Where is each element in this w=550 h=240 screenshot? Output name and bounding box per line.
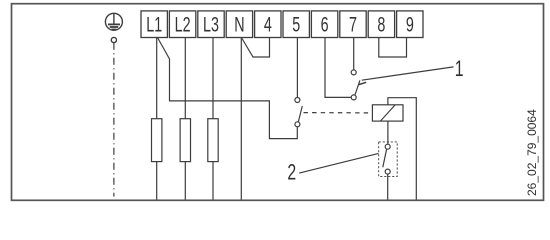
svg-text:8: 8 (377, 13, 385, 36)
terminal block (141, 11, 423, 38)
terminal 7 (340, 11, 366, 38)
wire L3 (212, 38, 214, 119)
jumper 8-9 (379, 38, 407, 58)
fuse F2 (180, 119, 190, 162)
frame border (12, 4, 544, 201)
svg-text:7: 7 (349, 13, 357, 36)
terminal 4 (255, 11, 281, 38)
earth symbol PE (105, 13, 122, 30)
wire terminal 7 (353, 38, 355, 70)
switch 1 (terminals 6-7) (351, 70, 366, 100)
terminal 5 (283, 11, 309, 38)
svg-text:26_02_79_0064: 26_02_79_0064 (525, 109, 539, 196)
wire relay coil top loop (388, 98, 416, 200)
wire N (240, 38, 242, 200)
svg-text:L1: L1 (146, 13, 162, 36)
svg-text:1: 1 (455, 58, 464, 82)
relay contact switch (terminal 5) (295, 98, 302, 127)
svg-text:4: 4 (264, 13, 272, 36)
terminal L2 (169, 11, 195, 38)
wire L2 to bottom (184, 162, 186, 200)
terminal N (226, 11, 252, 38)
wire L3 to bottom (212, 162, 214, 200)
leader line to label 2 (299, 153, 378, 173)
terminal 6 (311, 11, 337, 38)
svg-text:2: 2 (287, 161, 296, 185)
svg-text:L2: L2 (175, 13, 191, 36)
svg-text:9: 9 (406, 13, 414, 36)
terminal L3 (198, 11, 224, 38)
wire terminal 5 down (296, 38, 298, 98)
terminal labels (146, 13, 414, 36)
svg-text:5: 5 (292, 13, 300, 36)
wire coil to switch 2 (387, 121, 389, 144)
svg-text:6: 6 (321, 13, 329, 36)
svg-text:N: N (234, 13, 244, 36)
terminal L1 (141, 11, 167, 38)
wire L2 (184, 38, 186, 119)
fuse F3 (208, 119, 218, 162)
fuse F1 (152, 119, 162, 162)
terminal 9 (397, 11, 423, 38)
switch 2 (relay contact in dashed box) (379, 142, 398, 177)
wire switch 2 to bottom (387, 174, 389, 199)
node (earth connection point) (111, 37, 116, 42)
relay coil K1 (372, 105, 403, 121)
mechanical link (dashed) (304, 112, 373, 114)
wire L1 (156, 38, 158, 119)
wire terminal 6 (325, 38, 351, 98)
svg-text:L3: L3 (203, 13, 219, 36)
jumper N-4 (242, 38, 270, 58)
leader line to label 1 (362, 67, 454, 80)
terminal 8 (368, 11, 394, 38)
wire L1 to bottom (156, 162, 158, 200)
wire L1 branch to contact (158, 38, 298, 139)
wire (dash-dot earth line) (113, 43, 115, 197)
